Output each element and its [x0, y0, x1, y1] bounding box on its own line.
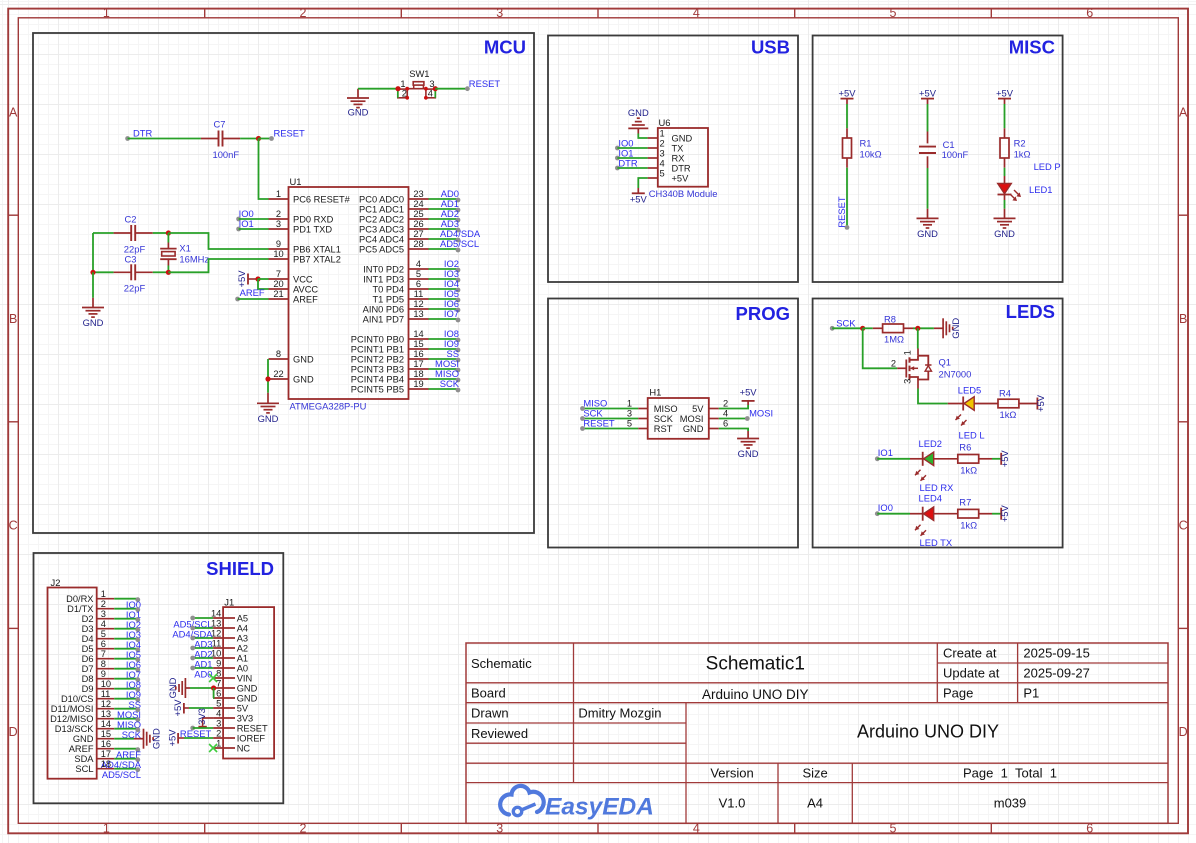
svg-text:100nF: 100nF [213, 149, 240, 160]
svg-text:LED TX: LED TX [920, 537, 953, 548]
+5V power flag at J1 pin 2 [166, 729, 184, 747]
unconnected end dot [745, 416, 750, 421]
svg-text:Dmitry Mozgin: Dmitry Mozgin [578, 706, 661, 721]
wire C7 to RESET node [240, 138, 258, 140]
svg-text:MISO: MISO [654, 404, 678, 414]
resistor R1 [843, 138, 852, 158]
svg-text:20: 20 [273, 279, 283, 289]
wire +5V to U1 pin 7 [258, 278, 269, 280]
wire C2 to C3 left rail [92, 233, 94, 272]
svg-text:22pF: 22pF [124, 283, 146, 294]
+5V power flag at R1 [839, 88, 857, 104]
svg-text:Arduino UNO DIY: Arduino UNO DIY [857, 722, 999, 742]
svg-text:RESET: RESET [836, 196, 847, 228]
wire J1 to AD5/SCL [190, 616, 213, 621]
wire J2 D9 to IO9 [114, 687, 140, 692]
wire R8 to ground [913, 327, 934, 329]
LED5 lead [948, 403, 963, 405]
svg-text:D: D [1179, 725, 1188, 739]
+5V power flag at C1 [919, 88, 937, 104]
svg-text:IO7: IO7 [444, 308, 459, 319]
svg-text:RESET: RESET [274, 127, 306, 138]
svg-text:PC2 ADC2: PC2 ADC2 [359, 214, 404, 224]
svg-text:+5V: +5V [172, 699, 183, 717]
svg-text:GND: GND [683, 424, 704, 434]
ground at crystal [82, 298, 104, 328]
svg-text:1: 1 [216, 738, 221, 748]
U1 pin 5 INT1 PD3 net IO3 [363, 268, 460, 284]
H1 pin 1 MISO net MISO [580, 398, 677, 414]
J1 pin 8 VIN [213, 668, 252, 683]
svg-text:4: 4 [693, 6, 700, 20]
svg-text:2: 2 [300, 6, 307, 20]
wire XTAL1 node to U1 pin 9 [168, 233, 268, 249]
svg-text:11: 11 [414, 289, 424, 299]
svg-text:3: 3 [216, 718, 221, 728]
svg-text:GND: GND [167, 677, 178, 698]
MCU section box [33, 33, 534, 533]
U1 pin 17 PCINT3 PB3 net MOSI [351, 358, 461, 374]
svg-text:9: 9 [101, 669, 106, 679]
ground at J1 [167, 677, 190, 698]
svg-text:INT0 PD2: INT0 PD2 [363, 264, 404, 274]
capacitor C3 lead [114, 271, 131, 273]
svg-text:TX: TX [672, 143, 684, 153]
svg-text:A5: A5 [237, 613, 248, 623]
svg-text:D0/RX: D0/RX [66, 594, 93, 604]
svg-text:1kΩ: 1kΩ [960, 464, 977, 475]
J2 pin 1 D0/RX [66, 589, 114, 604]
svg-text:16: 16 [413, 349, 423, 359]
wire +5V to C1 [927, 104, 929, 132]
svg-text:C2: C2 [125, 213, 137, 224]
svg-text:R4: R4 [999, 387, 1011, 398]
wire SCK node to Q1 gate [863, 328, 898, 368]
svg-text:PCINT2 PB2: PCINT2 PB2 [351, 354, 404, 364]
wire J1 to AD2 [190, 646, 213, 651]
ground at U6 [628, 107, 649, 133]
svg-text:IO1: IO1 [878, 447, 893, 458]
wire +5V to R2 [1004, 104, 1006, 128]
J2 pin 15 GND [73, 729, 114, 744]
svg-text:18: 18 [101, 759, 111, 769]
LED1 lead [1004, 195, 1006, 201]
ground at C1 [917, 209, 939, 239]
wire Q1 source to LED5 [918, 389, 948, 404]
J2 pin 4 D3 [82, 619, 115, 634]
svg-text:SCK: SCK [440, 378, 460, 389]
svg-text:T1 PD5: T1 PD5 [372, 294, 404, 304]
svg-text:AIN1 PD7: AIN1 PD7 [363, 314, 404, 324]
svg-text:J2: J2 [51, 577, 61, 588]
svg-text:EasyEDA: EasyEDA [545, 794, 654, 821]
wire XTAL2 node to U1 pin 10 [168, 259, 268, 272]
svg-text:AIN0 PD6: AIN0 PD6 [363, 304, 404, 314]
svg-text:IO1: IO1 [239, 218, 254, 229]
connector J1 body [223, 607, 274, 758]
svg-text:J1: J1 [224, 596, 234, 607]
resistor R2 lead [1004, 158, 1006, 168]
transistor Q1 2N7000 [897, 349, 931, 389]
svg-text:D: D [9, 725, 18, 739]
svg-text:12: 12 [211, 628, 221, 638]
svg-text:+5V: +5V [1035, 394, 1046, 412]
svg-text:PC0 ADC0: PC0 ADC0 [359, 194, 404, 204]
svg-text:1: 1 [103, 821, 110, 835]
wire left rail to ground [92, 272, 94, 298]
+5V power flag at U6 [630, 188, 648, 205]
junction drain node [915, 326, 920, 331]
wire J1 to AD3 [190, 636, 213, 641]
wire J2 AREF to AREF [114, 747, 140, 752]
svg-text:T0 PD4: T0 PD4 [372, 284, 404, 294]
wire IO0 to U1 pin 2 [239, 218, 269, 220]
svg-text:GND: GND [950, 318, 961, 339]
svg-text:+5V: +5V [166, 729, 177, 747]
wire J2 D1/TX to IO1 [114, 607, 140, 612]
wire IO0 to LED4 [877, 513, 910, 515]
wire GND to SW1 pin 1 [358, 88, 398, 90]
U1 pin 6 T0 PD4 net IO4 [372, 278, 460, 294]
svg-text:PB6 XTAL1: PB6 XTAL1 [293, 244, 341, 254]
svg-text:1: 1 [103, 6, 110, 20]
+5V power flag at VCC [236, 270, 258, 288]
J2 pin 18 SCL [75, 759, 114, 774]
3V3 power flag [196, 708, 207, 727]
wire C1 to ground [927, 168, 929, 209]
svg-text:AD5/SCL: AD5/SCL [102, 769, 141, 780]
svg-text:AREF: AREF [293, 294, 318, 304]
U1 pin 4 INT0 PD2 net IO2 [363, 258, 460, 274]
svg-text:RESET: RESET [469, 78, 501, 89]
svg-text:m039: m039 [994, 796, 1027, 811]
LED LED2 [915, 452, 934, 481]
junction RESET node [256, 136, 261, 141]
wire DTR to U6 pin 4 [617, 167, 647, 169]
svg-text:15: 15 [101, 729, 111, 739]
unconnected end dot [845, 225, 850, 230]
svg-text:RX: RX [672, 153, 685, 163]
svg-text:GND: GND [348, 107, 369, 118]
svg-text:Schematic: Schematic [471, 656, 532, 671]
svg-text:D9: D9 [82, 684, 94, 694]
svg-text:3: 3 [660, 148, 665, 158]
svg-text:2N7000: 2N7000 [939, 368, 972, 379]
capacitor C7 [219, 131, 223, 147]
J2 pin 17 SDA [74, 749, 114, 764]
wire to RESET label [259, 138, 272, 140]
J1 pin 9 A0 [213, 658, 248, 673]
svg-text:DTR: DTR [672, 163, 691, 173]
svg-text:+5V: +5V [630, 194, 648, 205]
capacitor C1 [919, 147, 936, 153]
svg-text:GND: GND [83, 317, 104, 328]
+5V power flag at J1 pin 5 [172, 699, 189, 717]
frame row ticks [8, 215, 1188, 628]
svg-text:SCL: SCL [75, 764, 93, 774]
svg-text:CH340B Module: CH340B Module [649, 188, 718, 199]
wire H1 pin 6 to ground [719, 429, 748, 432]
svg-text:AVCC: AVCC [293, 284, 318, 294]
svg-text:SCK: SCK [836, 318, 856, 329]
svg-text:+5V: +5V [999, 504, 1010, 522]
J1 pin 1 NC [213, 738, 250, 753]
U1 pin 28 PC5 ADC5 net AD5/SCL [359, 238, 479, 254]
svg-text:Create at: Create at [943, 646, 997, 661]
wire R1 to RESET [846, 168, 848, 228]
svg-text:VCC: VCC [293, 274, 313, 284]
capacitor C2 lead [136, 232, 153, 234]
capacitor C7 lead [201, 138, 218, 140]
wire +5V to J1 pin 5 [189, 707, 213, 709]
svg-text:3V3: 3V3 [196, 708, 207, 725]
svg-text:P1: P1 [1023, 686, 1039, 701]
U1 pin 8 GND [269, 349, 314, 365]
svg-text:24: 24 [413, 199, 423, 209]
svg-text:PROG: PROG [736, 303, 790, 324]
svg-text:6: 6 [1086, 6, 1093, 20]
svg-text:A0: A0 [237, 663, 248, 673]
svg-text:R8: R8 [884, 313, 896, 324]
svg-text:MCU: MCU [484, 37, 526, 58]
junction XTAL2 node [166, 270, 171, 275]
LED LED1 [998, 184, 1022, 202]
svg-text:R1: R1 [860, 138, 872, 149]
LED1 lead [1004, 176, 1006, 183]
USB section box [548, 36, 798, 283]
ground at J2 [134, 728, 162, 749]
svg-text:1: 1 [101, 589, 106, 599]
U1 pin 21 AREF [269, 289, 319, 305]
svg-text:D4: D4 [82, 634, 94, 644]
svg-text:A3: A3 [237, 633, 248, 643]
wire X1 to XTAL2 node [167, 266, 169, 273]
wire J2 D2 to IO2 [114, 617, 140, 622]
svg-text:IO0: IO0 [878, 502, 893, 513]
svg-text:3: 3 [101, 609, 106, 619]
resistor R1 lead [846, 128, 848, 138]
U1 pin 26 PC3 ADC3 net AD3 [359, 218, 460, 234]
svg-text:14: 14 [101, 719, 111, 729]
svg-text:PC3 ADC3: PC3 ADC3 [359, 224, 404, 234]
svg-text:RESET: RESET [237, 723, 268, 733]
wire LED1 to ground [1004, 200, 1006, 209]
unconnected end dot [235, 297, 240, 302]
J1 pin 5 5V [213, 698, 249, 713]
SHIELD section box [34, 553, 284, 803]
svg-text:3: 3 [627, 409, 632, 419]
svg-text:3: 3 [496, 6, 503, 20]
svg-text:1: 1 [627, 399, 632, 409]
svg-text:6: 6 [723, 419, 728, 429]
junction SCK node [860, 326, 865, 331]
wire RESET node to U1 pin 1 [259, 139, 269, 200]
svg-text:2: 2 [216, 728, 221, 738]
svg-text:LED5: LED5 [958, 385, 981, 396]
svg-text:PCINT5 PB5: PCINT5 PB5 [351, 384, 404, 394]
wire drain node to Q1 pin 1 [917, 328, 919, 348]
svg-text:+5V: +5V [236, 270, 247, 288]
svg-text:D2: D2 [82, 614, 94, 624]
svg-text:8: 8 [276, 349, 281, 359]
svg-text:2: 2 [660, 138, 665, 148]
wire +5V to U1 pin 20 [258, 279, 269, 289]
svg-text:GND: GND [73, 734, 94, 744]
wire to R8 [863, 327, 873, 329]
svg-text:LED1: LED1 [1029, 184, 1052, 195]
svg-text:5: 5 [216, 698, 221, 708]
svg-text:14: 14 [413, 329, 423, 339]
svg-text:D7: D7 [82, 664, 94, 674]
svg-text:Update at: Update at [943, 666, 1000, 681]
svg-text:6: 6 [416, 279, 421, 289]
J2 pin 8 D7 [82, 659, 115, 674]
svg-text:1MΩ: 1MΩ [884, 334, 904, 345]
svg-text:DTR: DTR [618, 157, 637, 168]
svg-text:+5V: +5V [839, 88, 857, 99]
J2 pin 6 D5 [82, 639, 115, 654]
wire J2 D0/RX to IO0 [114, 597, 140, 602]
+5V power flag at H1 [740, 386, 758, 405]
R6 lead [979, 458, 992, 460]
J2 pin 2 D1/TX [67, 599, 114, 614]
svg-text:+5V: +5V [919, 88, 937, 99]
svg-text:9: 9 [276, 239, 281, 249]
svg-text:14: 14 [211, 608, 221, 618]
wire RESET to J1 pin 3 [193, 727, 213, 729]
svg-text:1: 1 [400, 79, 405, 89]
H1 pin 5 RST net RESET [580, 418, 673, 434]
svg-text:16MHz: 16MHz [179, 254, 209, 265]
svg-text:AD5/SCL: AD5/SCL [440, 238, 479, 249]
+5V power flag at R7 [999, 504, 1010, 522]
svg-text:3V3: 3V3 [237, 713, 254, 723]
IC U6 body [658, 128, 708, 187]
U1 pin 1 PC6 RESET# [269, 189, 351, 205]
wire H1 pin 2 to +5V [719, 405, 748, 409]
R4 lead [1019, 403, 1038, 405]
svg-text:RESET: RESET [583, 418, 615, 429]
wire U1 GND rail [267, 359, 269, 393]
PROG section box [548, 299, 798, 548]
+5V power flag at R6 [999, 450, 1010, 468]
svg-text:1kΩ: 1kΩ [960, 519, 977, 530]
U1 pin 11 T1 PD5 net IO5 [372, 288, 460, 304]
resistor R4 [998, 399, 1019, 408]
svg-text:1: 1 [660, 128, 665, 138]
svg-text:A2: A2 [237, 643, 248, 653]
unconnected end dot [615, 156, 620, 161]
wire SW1 to RESET [435, 88, 467, 90]
EasyEDA logo cloud [500, 786, 544, 816]
wire IO1 to U6 pin 3 [617, 157, 647, 159]
svg-text:AREF: AREF [69, 744, 94, 754]
wire J2 D7 to IO7 [114, 667, 140, 672]
svg-text:26: 26 [413, 219, 423, 229]
wire R2 to LED1 [1004, 168, 1006, 176]
svg-text:PCINT3 PB3: PCINT3 PB3 [351, 364, 404, 374]
wire SCK to R8 [832, 327, 863, 329]
J1 pin 6 GND [213, 688, 258, 703]
U1 pin 18 PCINT4 PB4 net MISO [351, 368, 461, 384]
svg-text:Version: Version [710, 766, 753, 781]
J1 pin 2 IOREF [213, 728, 265, 743]
svg-text:Schematic1: Schematic1 [706, 653, 805, 674]
J1 pin 3 RESET [213, 718, 268, 733]
J2 pin 12 D11/MOSI [51, 699, 114, 714]
svg-text:R6: R6 [959, 442, 971, 453]
svg-text:AREF: AREF [240, 287, 265, 298]
svg-text:Drawn: Drawn [471, 706, 509, 721]
wire J2 D12/MISO to MISO [114, 717, 140, 722]
U6 pin 4 DTR [648, 158, 691, 173]
U1 pin 3 PD1 TXD [269, 219, 333, 235]
J2 pin 7 D6 [82, 649, 115, 664]
wire ground to J1 pin 7 [190, 687, 214, 689]
wire J2 D11/MOSI to MOSI [114, 707, 140, 712]
H1 pin 6 GND [683, 419, 728, 434]
svg-text:1: 1 [276, 189, 281, 199]
J2 pin 3 D2 [82, 609, 115, 624]
wire to crystal X1 [167, 233, 169, 243]
svg-text:A4: A4 [807, 796, 823, 811]
svg-text:16: 16 [101, 739, 111, 749]
svg-text:MOSI: MOSI [749, 407, 773, 418]
LEDS section box [813, 299, 1063, 548]
svg-text:RST: RST [654, 424, 673, 434]
wire +5V to R1 [846, 104, 848, 128]
svg-text:2: 2 [891, 359, 896, 369]
wire J2 D6 to IO6 [114, 657, 140, 662]
svg-text:GND: GND [672, 133, 693, 143]
svg-text:3: 3 [276, 219, 281, 229]
svg-text:GND: GND [237, 693, 258, 703]
U1 pin 2 PD0 RXD [269, 209, 334, 225]
wire J2 pin 15 to ground [114, 738, 134, 740]
U6 pin 5 +5V [648, 168, 689, 183]
U1 pin 12 AIN0 PD6 net IO6 [363, 298, 461, 314]
J1 pin 7 GND [213, 678, 258, 693]
resistor R7 [958, 509, 979, 518]
junction XTAL1 node [166, 230, 171, 235]
capacitor C3 lead [136, 271, 153, 273]
resistor R1 lead [846, 158, 848, 168]
svg-text:D8: D8 [82, 674, 94, 684]
svg-text:Board: Board [471, 686, 506, 701]
svg-text:Q1: Q1 [939, 356, 952, 367]
svg-text:21: 21 [273, 289, 283, 299]
header H1 body [648, 398, 709, 439]
wire J2 D13/SCK to SCK [114, 727, 140, 732]
resistor R2 [1000, 138, 1009, 158]
svg-text:GND: GND [151, 728, 162, 749]
svg-text:MISC: MISC [1009, 37, 1055, 58]
wire H1 pin 4 to MOSI [719, 418, 748, 420]
svg-text:R2: R2 [1014, 138, 1026, 149]
svg-text:+5V: +5V [740, 386, 758, 397]
svg-text:D10/CS: D10/CS [61, 694, 94, 704]
svg-text:2: 2 [276, 209, 281, 219]
svg-text:2025-09-15: 2025-09-15 [1023, 646, 1090, 661]
svg-text:1: 1 [902, 350, 912, 355]
unconnected end dot [236, 217, 241, 222]
svg-text:GND: GND [994, 228, 1015, 239]
LED2 lead [910, 458, 923, 460]
unconnected end dot [875, 511, 880, 516]
svg-text:13: 13 [413, 309, 423, 319]
resistor R6 [958, 455, 979, 464]
svg-text:SHIELD: SHIELD [206, 558, 274, 579]
